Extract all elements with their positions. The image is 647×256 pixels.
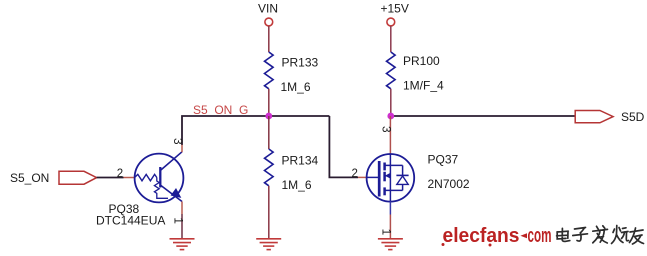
- junction node on +15V line: [387, 113, 394, 120]
- junction node on VIN divider: [265, 113, 272, 120]
- pin stub emitter PQ38: [181, 202, 183, 215]
- wire source to ground: [389, 215, 391, 239]
- wire net S5_ON_G horizontal: [182, 116, 329, 145]
- svg-text:3: 3: [380, 126, 394, 133]
- svg-text:S5_ON: S5_ON: [10, 171, 49, 185]
- pin stub gate PQ37: [358, 176, 367, 178]
- wire VIN circle to PR133: [268, 26, 270, 52]
- svg-text:S5D: S5D: [621, 110, 645, 124]
- pin stub base PQ38: [124, 177, 135, 179]
- svg-text:2N7002: 2N7002: [428, 177, 470, 191]
- transistor PQ38: [96, 152, 183, 228]
- wire junction to PR134: [268, 116, 270, 149]
- svg-text:1M_6: 1M_6: [282, 178, 312, 192]
- resistor PR133: [265, 52, 319, 94]
- svg-text:com: com: [528, 225, 552, 247]
- pin stub source PQ37: [389, 201, 391, 214]
- char shao: [612, 226, 629, 244]
- mosfet PQ37: [367, 153, 470, 202]
- svg-text:PR134: PR134: [282, 154, 319, 168]
- wire S5_ON to PQ38 base: [97, 177, 124, 179]
- ground below PQ37: [378, 239, 403, 250]
- resistor PR100: [387, 52, 445, 93]
- wire PR133 to junction: [268, 89, 270, 116]
- svg-text:1: 1: [171, 217, 185, 224]
- svg-text:VIN: VIN: [258, 1, 278, 15]
- resistor PR134: [265, 149, 319, 192]
- char dian: [557, 228, 570, 241]
- svg-text:3: 3: [171, 138, 185, 145]
- svg-text:1: 1: [380, 229, 394, 236]
- svg-text:PQ37: PQ37: [428, 153, 459, 167]
- svg-text:1M_6: 1M_6: [281, 80, 311, 94]
- svg-text:PR100: PR100: [403, 54, 440, 68]
- char you: [630, 228, 644, 244]
- power port VIN: [258, 1, 278, 26]
- output port S5D: [575, 110, 644, 124]
- watermark chinese 电子发烧友: [557, 226, 644, 245]
- svg-text:2: 2: [117, 168, 123, 180]
- svg-text:S5_ON_G: S5_ON_G: [193, 103, 248, 117]
- pin stub collector PQ38: [181, 145, 183, 152]
- char zi: [573, 228, 588, 242]
- ground below PQ38: [170, 239, 195, 250]
- svg-text:2: 2: [352, 168, 358, 180]
- char fa: [593, 226, 608, 243]
- wire corner down to gate: [329, 116, 358, 177]
- svg-text:PR133: PR133: [282, 56, 319, 70]
- wire PR134 to ground: [268, 186, 270, 239]
- wire junction2 down to PQ37 drain: [389, 116, 391, 154]
- wire +15V circle to PR100: [390, 26, 392, 52]
- svg-text:+15V: +15V: [381, 1, 409, 15]
- power port +15V: [381, 1, 409, 26]
- svg-text:DTC144EUA: DTC144EUA: [96, 214, 165, 228]
- input port S5_ON: [10, 171, 97, 185]
- wire junction2 to S5D: [391, 115, 575, 117]
- wire emitter to ground: [181, 214, 183, 239]
- svg-text:elecfans: elecfans: [443, 225, 520, 247]
- svg-text:1M/F_4: 1M/F_4: [403, 79, 444, 93]
- watermark elecfans.com logo: [442, 225, 552, 247]
- ground below PR134: [256, 239, 281, 250]
- wire PR100 to junction 2: [390, 89, 392, 116]
